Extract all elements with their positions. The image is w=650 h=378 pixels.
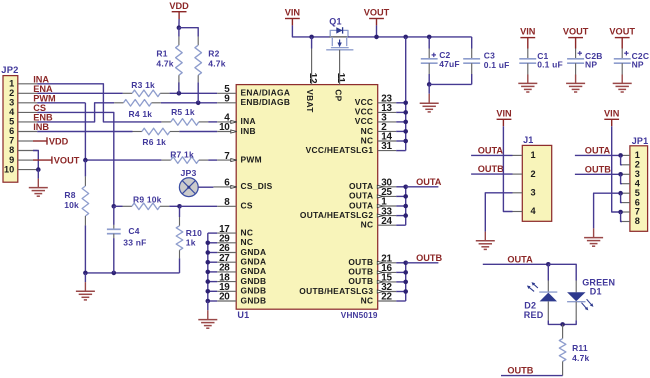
node GND rail junction (206, 279, 211, 284)
U1 pin name CS (241, 201, 253, 211)
JP1 pin 1 stub (622, 154, 630, 156)
U1 pin 23 stub (378, 94, 406, 105)
wire R5 to pin4 (208, 121, 217, 123)
node VBAT junction (309, 35, 314, 40)
wire Q1 to VOUT (348, 36, 472, 38)
JP1 pin 6 stub (622, 202, 630, 204)
power VOUT top (364, 8, 390, 37)
U1 pin 15 stub (377, 273, 405, 284)
svg-text:INB: INB (33, 122, 49, 132)
svg-text:10k: 10k (64, 200, 79, 210)
svg-text:R8: R8 (64, 190, 75, 200)
U1 pin 12 number (307, 73, 318, 84)
JP2 pin 10 stub (18, 169, 37, 171)
JP2 pin 3 stub (18, 102, 37, 104)
svg-text:VCC: VCC (355, 97, 374, 107)
node JP1 pin5 junction (618, 191, 623, 196)
capacitor C2 47uF (421, 37, 460, 85)
wire C3 bottom to C2 (429, 83, 472, 85)
JP1 pin 5 stub (622, 192, 630, 194)
wire PWM row left (37, 102, 85, 104)
U1 pin name OUTB 16 (348, 267, 373, 277)
op-amp U1 VNH5019 body (236, 85, 378, 320)
svg-text:GNDA: GNDA (241, 247, 267, 257)
svg-text:0.1 uF: 0.1 uF (484, 60, 510, 70)
JP1 pin 7 stub (622, 211, 630, 213)
svg-text:R2: R2 (208, 49, 219, 59)
svg-text:OUTA: OUTA (349, 200, 373, 210)
svg-text:VDD: VDD (169, 1, 189, 11)
svg-text:8: 8 (635, 216, 640, 226)
JP2 pin 7 stub (18, 140, 33, 142)
svg-text:PWM: PWM (33, 93, 56, 103)
ground below JP2 (29, 170, 48, 197)
wire JP3 to pin6 (198, 186, 213, 188)
svg-text:NC: NC (361, 135, 374, 145)
svg-text:J1: J1 (523, 135, 533, 145)
U1 pin name GNDA 26 (241, 247, 267, 257)
node CS/R10 junction (177, 204, 182, 209)
svg-text:CP: CP (333, 89, 343, 101)
svg-text:R10: R10 (186, 228, 202, 238)
svg-text:VBAT: VBAT (305, 89, 315, 113)
node VCC rail tap (403, 120, 408, 125)
resistor R3 1k (123, 80, 170, 96)
wire ENA row right (170, 92, 218, 94)
wire LED bottom (548, 320, 576, 324)
net stub OUTB to J1 (471, 164, 512, 174)
svg-text:NC: NC (361, 295, 374, 305)
svg-text:1: 1 (9, 79, 14, 89)
svg-text:VHN5019: VHN5019 (341, 311, 378, 320)
U1 pin 21 stub (377, 254, 405, 265)
wire OUTB rail (405, 263, 407, 301)
U1 pin name GNDB 18 (241, 276, 267, 286)
U1 pin name GNDB 20 (241, 295, 267, 305)
node VCC rail junction (403, 35, 408, 40)
net stub OUTB (406, 253, 443, 263)
power VDD at JP2 pin7 (33, 136, 69, 146)
svg-text:47uF: 47uF (439, 59, 460, 69)
wire JP1 ground riser (594, 193, 622, 228)
U1 pin 2 stub (378, 122, 406, 133)
svg-text:4.7k: 4.7k (572, 353, 589, 363)
JP2 pin 4 stub (18, 111, 37, 113)
wire INB row right (179, 131, 217, 133)
node GND rail junction (206, 289, 211, 294)
J1 pin 1 stub (513, 154, 523, 156)
net stub OUTA to JP1 (575, 145, 622, 155)
node rail/R8 junction (83, 271, 88, 276)
wire R9 to CS junction (169, 205, 179, 207)
wire LED top (548, 264, 576, 280)
svg-text:VIN: VIN (285, 8, 301, 18)
U1 pin 33 stub (377, 206, 405, 217)
led D1 GREEN (567, 277, 615, 320)
U1 pin name INB (241, 126, 256, 136)
node VCC rail tap (403, 101, 408, 106)
svg-text:OUTB: OUTB (348, 257, 373, 267)
svg-text:OUTA: OUTA (416, 177, 442, 187)
svg-text:4: 4 (531, 206, 537, 216)
node OUTB rail tap (403, 289, 408, 294)
svg-text:C4: C4 (128, 226, 139, 236)
U1 pin 1 stub (377, 197, 405, 208)
wire VIN to JP1 pin7 (612, 126, 622, 212)
JP2 pin 1 stub (18, 83, 37, 85)
wire ground rail (85, 272, 179, 274)
U1 pin name GNDB 19 (241, 286, 267, 296)
wire JP1 pin1 to pin2 (621, 155, 622, 164)
svg-text:VOUT: VOUT (54, 156, 80, 166)
svg-text:OUTA: OUTA (349, 181, 373, 191)
U1 pin name OUTA 1 (349, 200, 373, 210)
power VDD top (169, 1, 189, 28)
svg-text:2: 2 (531, 169, 536, 179)
JP1 pin 3 stub (622, 173, 630, 175)
U1 pin name NC 29 (241, 237, 254, 247)
node ENB/R2 junction (196, 101, 201, 106)
U1 pin name NC 2 (361, 126, 374, 136)
svg-text:CS: CS (33, 103, 46, 113)
svg-text:VIN: VIN (496, 108, 512, 118)
U1 pin name ENB/DIAGB (241, 97, 291, 107)
svg-text:OUTB: OUTB (348, 267, 373, 277)
resistor R2 (195, 37, 226, 83)
U1 pin name VCC/HEATSLG1 31 (306, 145, 374, 155)
svg-text:6: 6 (9, 126, 14, 136)
power VIN above J1 (496, 108, 512, 126)
svg-text:C3: C3 (484, 51, 495, 61)
svg-text:OUTA: OUTA (585, 145, 611, 155)
U1 pin 9 stub (217, 94, 236, 105)
wire ENB crossover (37, 103, 114, 122)
wire R2 bottom (197, 82, 199, 102)
svg-text:CS: CS (241, 201, 253, 211)
J1 pin 2 stub (513, 173, 523, 175)
connector JP1 (630, 136, 648, 232)
node VCC rail tap (403, 110, 408, 115)
wire J1 pin3 to ground (485, 193, 512, 232)
net stub OUTB to JP1 (575, 164, 622, 174)
resistor R11 4.7k (559, 324, 589, 375)
ground below J1 (476, 232, 495, 250)
node GND rail junction (206, 270, 211, 275)
wire VCC rail (405, 37, 407, 151)
net label PWM (33, 93, 56, 103)
U1 pin name GNDA 27 (241, 257, 267, 267)
connector JP2 (1, 64, 18, 182)
svg-text:VOUT: VOUT (364, 8, 390, 18)
net stub OUTA to J1 (471, 145, 512, 155)
wire CS node to R10 (179, 206, 181, 217)
svg-text:33 nF: 33 nF (123, 237, 146, 247)
svg-text:3: 3 (9, 98, 14, 108)
node OUTB rail tap (403, 261, 408, 266)
node OUTA rail tap (403, 204, 408, 209)
node VOUT junction (374, 35, 379, 40)
node OUTA rail tap (403, 185, 408, 190)
JP1 pin 4 stub (622, 183, 630, 185)
svg-text:2: 2 (9, 88, 14, 98)
svg-text:1: 1 (531, 150, 536, 160)
power VIN top (285, 8, 301, 26)
svg-text:GNDB: GNDB (241, 286, 267, 296)
U1 pin 7 stub (217, 151, 237, 162)
svg-text:12: 12 (307, 73, 318, 84)
ground below U1 (198, 301, 217, 328)
svg-text:4.7k: 4.7k (156, 58, 173, 68)
svg-text:4: 4 (9, 107, 15, 117)
svg-text:VIN: VIN (604, 108, 620, 118)
svg-text:U1: U1 (237, 310, 249, 320)
U1 pin 26 stub (208, 243, 236, 254)
U1 pin name OUTB 15 (348, 276, 373, 286)
wire U1 GND rail (207, 233, 209, 301)
svg-text:D2: D2 (524, 300, 536, 310)
U1 pin 24 stub (378, 216, 406, 227)
svg-text:OUTB: OUTB (348, 276, 373, 286)
U1 pin name VCC 23 (355, 97, 374, 107)
wire ENA row (37, 92, 123, 94)
U1 pin 20 stub (208, 292, 236, 303)
svg-text:JP2: JP2 (1, 64, 18, 75)
U1 pin 19 stub (208, 282, 236, 293)
wire R10 to rail (179, 258, 181, 273)
svg-text:NP: NP (585, 60, 597, 70)
svg-text:4.7k: 4.7k (208, 58, 225, 68)
U1 pin 18 stub (208, 272, 236, 283)
JP1 pin 2 stub (622, 164, 630, 166)
net label INB (33, 122, 49, 132)
wire JP1 pin3 to pin4 (621, 174, 622, 183)
net stub OUTB to R11 (501, 366, 563, 376)
JP1 pin 8 stub (622, 221, 630, 223)
net label ENA (33, 84, 53, 94)
svg-text:R5 1k: R5 1k (171, 107, 195, 117)
U1 pin 27 stub (208, 253, 236, 264)
wire CS to pin8 (180, 205, 218, 207)
svg-text:JP1: JP1 (632, 136, 649, 146)
U1 pin 3 stub (378, 113, 406, 124)
svg-text:7: 7 (9, 136, 14, 146)
svg-text:VCC/HEATSLG1: VCC/HEATSLG1 (306, 145, 374, 155)
svg-text:1k: 1k (186, 238, 196, 248)
U1 pin name CS_DIS (241, 181, 273, 191)
U1 pin name INA (241, 116, 256, 126)
resistor R8 10k (64, 176, 89, 225)
svg-text:NC: NC (361, 126, 374, 136)
node GND rail junction (206, 250, 211, 255)
U1 pin 8 stub (217, 197, 236, 208)
svg-text:NC: NC (241, 237, 254, 247)
power VIN above JP1 (604, 108, 620, 126)
U1 pin name NC 17 (241, 227, 254, 237)
U1 pin name NC 24 (361, 220, 374, 230)
U1 pin 6 stub (213, 178, 236, 189)
svg-text:VOUT: VOUT (563, 27, 589, 37)
net stub OUTA to LEDs (483, 254, 549, 264)
svg-text:8: 8 (9, 145, 14, 155)
svg-text:2: 2 (635, 160, 640, 170)
svg-text:OUTB: OUTB (416, 253, 442, 263)
JP2 pin 6 stub (18, 131, 37, 133)
JP2 pin 5 stub (18, 121, 37, 123)
U1 pin name OUTA 25 (349, 191, 373, 201)
node OUTB rail tap (403, 280, 408, 285)
resistor R4 1k (114, 100, 161, 120)
svg-text:R6 1k: R6 1k (142, 137, 166, 147)
wire R7 to pin7 (208, 159, 217, 161)
U1 pin 28 stub (208, 263, 236, 274)
svg-text:RED: RED (524, 310, 544, 320)
U1 pin name OUTB 21 (348, 257, 373, 267)
svg-text:7: 7 (635, 207, 640, 217)
wire ENB row right (161, 102, 217, 104)
resistor R7 1k (161, 149, 208, 163)
svg-text:D1: D1 (590, 287, 602, 297)
U1 pin 11 number (335, 73, 346, 84)
svg-text:OUTA: OUTA (478, 145, 504, 155)
svg-text:INA: INA (241, 116, 256, 126)
capacitor C3 0.1uF (463, 37, 509, 85)
wire PWM vertical (84, 103, 86, 160)
U1 pin 17 stub (208, 224, 236, 235)
U1 pin 5 stub (217, 84, 236, 95)
svg-text:OUTB: OUTB (507, 366, 533, 376)
node C2 bottom junction (427, 82, 432, 87)
svg-text:VCC: VCC (355, 107, 374, 117)
capacitor C2B NP (563, 27, 603, 92)
U1 pin name VBAT (305, 89, 315, 113)
wire JP1 pin7 to pin8 (621, 212, 622, 222)
node GND rail junction (206, 299, 211, 304)
capacitor C2C NP (609, 27, 649, 92)
svg-text:NC: NC (241, 227, 254, 237)
wire INB row (37, 131, 132, 133)
ground below JP1 (584, 228, 603, 246)
svg-text:5: 5 (9, 117, 14, 127)
svg-text:VCC: VCC (355, 116, 374, 126)
resistor R10 1k (176, 217, 202, 258)
svg-text:OUTA: OUTA (349, 191, 373, 201)
wire VDD to R2 (179, 28, 198, 37)
node OUTB rail tap (403, 270, 408, 275)
U1 pin 11 lead (339, 50, 341, 85)
svg-text:R1: R1 (156, 49, 167, 59)
svg-text:ENB/DIAGB: ENB/DIAGB (241, 97, 291, 107)
U1 pin name VCC 3 (355, 116, 374, 126)
U1 pin 16 stub (377, 263, 405, 274)
J1 pin 4 stub (513, 211, 523, 213)
node JP1 pin7 junction (618, 210, 623, 215)
JP2 pin 9 stub (18, 159, 33, 161)
svg-text:OUTB/HEATSLG3: OUTB/HEATSLG3 (299, 286, 373, 296)
ground below C2 (420, 84, 439, 112)
wire INA row (37, 84, 161, 122)
capacitor C1 0.1 uF (518, 27, 563, 92)
svg-text:GNDA: GNDA (241, 266, 267, 276)
svg-text:VOUT: VOUT (609, 27, 635, 37)
jumper JP3 (0, 0, 1, 1)
svg-text:10: 10 (4, 164, 14, 174)
svg-text:R7 1k: R7 1k (170, 149, 194, 159)
U1 pin 13 stub (378, 103, 406, 114)
svg-text:OUTA/HEATSLG2: OUTA/HEATSLG2 (300, 210, 373, 220)
U1 pin 29 stub (208, 234, 236, 245)
node OUTA rail tap (403, 213, 408, 218)
wire R1 bottom (178, 82, 180, 93)
wire JP2 pin8 to pin10 (33, 151, 38, 170)
svg-text:JP3: JP3 (181, 168, 197, 178)
U1 pin 10 stub (217, 122, 237, 133)
svg-text:GNDB: GNDB (241, 276, 267, 286)
JP2 pin 8 stub (18, 150, 37, 152)
wire PWM node to R8 (84, 160, 86, 176)
net label INA (33, 74, 49, 84)
wire PWM row to R7 (85, 159, 161, 161)
U1 pin 25 stub (377, 187, 405, 198)
node LED top junction (546, 262, 551, 267)
svg-text:R3 1k: R3 1k (131, 80, 155, 90)
svg-text:VDD: VDD (49, 136, 69, 146)
wire CS node to R9 (114, 205, 123, 207)
node LED bottom junction (560, 322, 565, 327)
node CS/R9/C4 junction (112, 204, 117, 209)
resistor R5 1k (161, 107, 208, 125)
U1 pin name PWM (241, 154, 262, 164)
jumper JP3 (179, 168, 198, 197)
svg-text:0.1 uF: 0.1 uF (537, 60, 563, 70)
node PWM/R7/R8 junction (83, 158, 88, 163)
net label ENB (33, 112, 53, 122)
svg-text:NC: NC (361, 220, 374, 230)
node JP1 pin1 junction (618, 153, 623, 158)
U1 pin 31 stub (378, 141, 406, 152)
svg-text:11: 11 (335, 73, 346, 84)
node rail/C4 junction (112, 271, 117, 276)
svg-text:PWM: PWM (241, 154, 262, 164)
node C2 top junction (427, 35, 432, 40)
svg-text:OUTB: OUTB (478, 164, 504, 174)
svg-text:VIN: VIN (520, 27, 536, 37)
U1 pin name ENA/DIAGA (241, 88, 291, 98)
power VOUT at JP2 pin9 (33, 156, 80, 166)
U1 pin name CP (333, 89, 343, 101)
svg-text:INA: INA (33, 74, 49, 84)
U1 pin name GNDA 28 (241, 266, 267, 276)
svg-text:R4 1k: R4 1k (129, 109, 153, 119)
net label CS (33, 103, 46, 113)
wire VIN to Q1 (292, 25, 330, 37)
svg-text:3: 3 (531, 188, 536, 198)
node GND rail junction (206, 260, 211, 265)
ground below rail (76, 273, 95, 300)
node GND rail junction (206, 241, 211, 246)
capacitor C4 33nF (107, 206, 147, 273)
wire R8 to rail (84, 225, 86, 273)
wire JP1 pin5 to pin6 (621, 193, 622, 202)
svg-text:Q1: Q1 (329, 17, 341, 27)
JP2 pin 2 stub (18, 92, 37, 94)
U1 pin name VCC 13 (355, 107, 374, 117)
node ENA/R1 junction (177, 91, 182, 96)
resistor R1 (156, 28, 182, 94)
U1 pin name OUTA 30 (349, 181, 373, 191)
node JP1 pin3 junction (618, 172, 623, 177)
svg-text:OUTB: OUTB (585, 164, 611, 174)
net stub OUTA (406, 177, 442, 187)
